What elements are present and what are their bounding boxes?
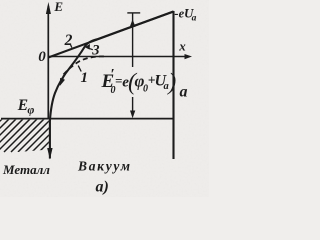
svg-text:Вакуум: Вакуум <box>77 159 132 174</box>
svg-text:a: a <box>180 84 188 101</box>
svg-text:a: a <box>192 13 197 23</box>
dimension arrow down <box>132 97 134 116</box>
paper background <box>0 0 209 197</box>
anode line (vertical, x = a) <box>172 11 174 159</box>
curve 1 (image potential, dashed) <box>64 56 105 74</box>
dimension extension tick at -eUa level <box>127 12 140 14</box>
svg-text:1: 1 <box>81 70 89 86</box>
E-phi level line (Fermi level) <box>1 118 174 120</box>
pointer tick of label 2 <box>71 45 72 48</box>
pointer arrow of label 3 <box>87 48 93 50</box>
curve 3 bottom arrowhead (into metal) <box>47 148 52 160</box>
curve 3 (total potential, solid) <box>50 12 174 159</box>
hatching (metal) <box>0 118 80 152</box>
axis E arrowhead <box>46 2 51 14</box>
svg-text:а): а) <box>96 179 109 196</box>
svg-text:E: E <box>53 0 63 14</box>
axis x (horizontal) <box>48 56 186 58</box>
axis x arrowhead <box>185 54 193 59</box>
svg-text:=: = <box>115 73 122 88</box>
svg-text:x: x <box>178 39 186 54</box>
svg-text:Металл: Металл <box>2 162 50 177</box>
formula E'0 = e(phi0+Ua) <box>101 67 177 97</box>
dimension arrow up <box>132 14 134 68</box>
line 2 (field potential, straight to -eUa) <box>48 12 173 58</box>
svg-text:′: ′ <box>110 67 114 83</box>
svg-text:0: 0 <box>38 49 46 65</box>
svg-text:): ) <box>166 70 176 96</box>
svg-text:φ: φ <box>27 103 34 117</box>
axis E (vertical) <box>47 6 49 119</box>
curve 1 arrowhead <box>60 78 65 86</box>
pointer tick of label 1 <box>78 66 81 72</box>
